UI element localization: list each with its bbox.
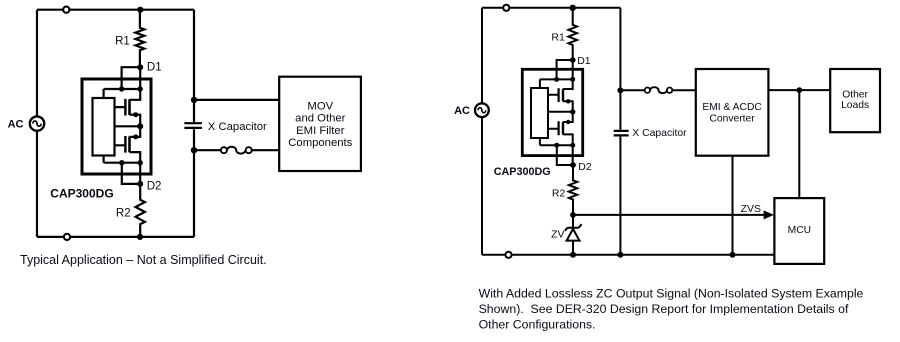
svg-text:R1: R1 <box>551 31 565 43</box>
svg-text:Converter: Converter <box>709 114 755 125</box>
svg-text:Components: Components <box>288 137 352 149</box>
svg-text:D2: D2 <box>578 161 592 173</box>
svg-text:Other: Other <box>842 89 868 100</box>
svg-text:AC: AC <box>8 119 24 131</box>
svg-text:MCU: MCU <box>788 225 811 236</box>
svg-text:ZV: ZV <box>551 229 564 241</box>
svg-text:R2: R2 <box>116 208 131 220</box>
svg-text:D2: D2 <box>147 181 162 193</box>
svg-text:and Other: and Other <box>295 113 345 125</box>
svg-text:R2: R2 <box>552 187 566 199</box>
svg-text:D1: D1 <box>577 55 591 67</box>
svg-text:Shown). See DER-320 Design Re: Shown). See DER-320 Design Report for Im… <box>479 302 849 316</box>
svg-text:EMI & ACDC: EMI & ACDC <box>702 102 762 113</box>
svg-text:D1: D1 <box>147 62 162 74</box>
svg-text:ZVS: ZVS <box>741 203 761 215</box>
svg-text:X Capacitor: X Capacitor <box>208 121 267 133</box>
svg-text:X Capacitor: X Capacitor <box>632 128 687 139</box>
svg-text:CAP300DG: CAP300DG <box>50 186 113 200</box>
svg-text:Other Configurations.: Other Configurations. <box>479 318 596 332</box>
svg-text:MOV: MOV <box>307 100 333 112</box>
svg-text:With Added Lossless ZC Output: With Added Lossless ZC Output Signal (No… <box>479 287 864 301</box>
svg-text:EMI Filter: EMI Filter <box>296 125 345 137</box>
svg-text:AC: AC <box>454 105 470 117</box>
svg-text:Typical Application – Not a Si: Typical Application – Not a Simplified C… <box>20 253 267 267</box>
svg-text:Loads: Loads <box>841 100 869 111</box>
svg-text:R1: R1 <box>115 35 130 47</box>
svg-text:CAP300DG: CAP300DG <box>494 166 551 178</box>
